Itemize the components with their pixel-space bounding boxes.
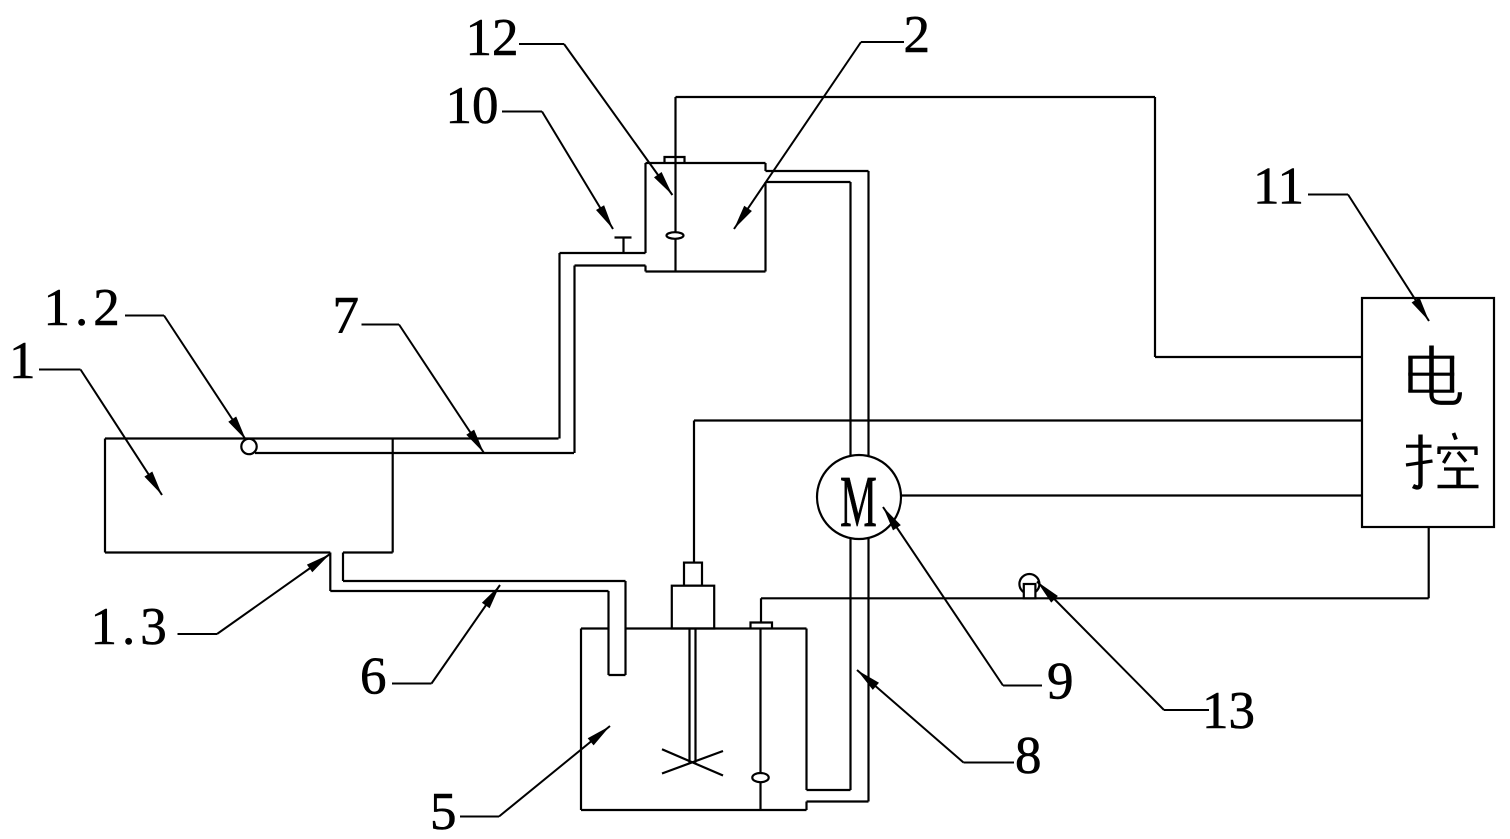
- label 7 arrowhead: [466, 430, 484, 453]
- svg-text:12: 12: [466, 9, 519, 67]
- sensor 13 circle head: [1019, 574, 1039, 594]
- mixing tank 5 top edge left of dip tube: [581, 627, 609, 629]
- pipe 8 outer top run: [766, 170, 869, 172]
- pipe 8 outer downcomer: [867, 171, 869, 802]
- pipe 8 inner top run: [766, 181, 851, 183]
- label 6 arrowhead: [482, 585, 500, 608]
- stirrer shaft right line: [694, 629, 696, 763]
- pipe 6 top line: [343, 580, 626, 582]
- pipe 8 outer bottom run: [807, 800, 869, 802]
- pump M circle: [817, 455, 901, 539]
- tank 5 inner weir wall: [759, 629, 761, 811]
- control box text: dian: [1408, 346, 1460, 403]
- mixing tank 5 right wall upper: [805, 629, 807, 791]
- outlet ellipse on weir wall: [752, 773, 768, 782]
- mixing tank 5 right wall lower: [805, 802, 807, 811]
- pipe 8 inner bottom run: [807, 789, 851, 791]
- control box 11 outline: [1362, 298, 1494, 527]
- svg-text:1.2: 1.2: [44, 279, 125, 337]
- pipe 6 dip tube bottom: [609, 674, 626, 676]
- label 1.3 leader line: [178, 554, 331, 634]
- sensor wire riser from tank 5 nozzle: [760, 598, 762, 622]
- label 9 leader line: [883, 507, 1042, 686]
- pipe 7 outer top run into condenser 2: [560, 252, 646, 254]
- label 1.3 arrowhead: [307, 554, 330, 572]
- label 13 leader line: [1037, 582, 1209, 711]
- svg-text:6: 6: [360, 648, 387, 706]
- condenser 2 bottom edge: [646, 270, 766, 272]
- label 10 arrowhead: [596, 205, 613, 229]
- svg-text:2: 2: [904, 6, 931, 64]
- condenser 2 top cap nozzle: [665, 157, 685, 163]
- label 6 leader line: [392, 585, 500, 684]
- tank 1 bottom edge right of outlet: [343, 551, 393, 553]
- label 13 arrowhead: [1037, 582, 1058, 603]
- label 8 arrowhead: [857, 670, 879, 690]
- label 8 leader line: [857, 670, 1014, 763]
- signal wire condenser 2 to control box: top run: [676, 96, 1156, 98]
- label 12 arrowhead: [654, 172, 672, 195]
- label 1 arrowhead: [144, 472, 162, 496]
- pipe 6 dip tube left line: [607, 591, 609, 675]
- label 1.2 leader line: [125, 316, 246, 441]
- float ellipse inside condenser 2: [667, 232, 684, 239]
- pipe 7 outer riser: [558, 253, 560, 439]
- stirrer motor 9 upper block: [684, 563, 702, 586]
- svg-text:M: M: [840, 461, 877, 542]
- svg-text:10: 10: [446, 77, 499, 135]
- tank 1 left wall: [104, 439, 106, 553]
- condenser 2 internal dip line: [674, 97, 676, 272]
- pipe 6 dip tube right line: [624, 581, 626, 675]
- pipe 7 inner riser: [573, 266, 575, 454]
- signal wire condenser 2 to control box: into box: [1155, 356, 1362, 358]
- label 1 leader line: [39, 370, 162, 496]
- tank 1 bottom edge left of outlet: [105, 551, 330, 553]
- tank 1 outlet 1.3 step right line: [342, 553, 344, 582]
- wire control box to stirrer motor: drop: [693, 421, 695, 564]
- tank 1 top edge continuing as pipe 7 top line: [105, 437, 559, 439]
- condenser 2 left wall upper: [644, 163, 646, 253]
- pipe 7 lower line horizontal run: [255, 452, 574, 454]
- condenser 2 left wall lower: [644, 266, 646, 272]
- label 12 leader line: [519, 44, 672, 195]
- sensor wire horizontal run: [761, 597, 1429, 599]
- control box text: kong: [1406, 433, 1479, 487]
- label 10 leader line: [502, 112, 613, 230]
- condenser 2 top edge: [646, 162, 766, 164]
- condenser 2 right wall upper: [764, 163, 766, 171]
- label 2 arrowhead: [734, 206, 752, 229]
- label 7 leader line: [362, 325, 485, 454]
- label 5 leader line: [460, 726, 610, 817]
- stirrer blade stroke 2: [662, 751, 723, 774]
- valve 10 tee stem: [622, 238, 624, 254]
- mixing tank 5 bottom edge: [581, 809, 807, 811]
- svg-text:1: 1: [9, 332, 36, 390]
- mixing tank 5 left wall: [580, 629, 582, 811]
- stirrer shaft left line: [688, 629, 690, 763]
- svg-text:9: 9: [1047, 653, 1074, 711]
- tank 1 outlet 1.3 step left line: [329, 553, 331, 592]
- label 11 leader line: [1308, 195, 1429, 322]
- svg-text:1.3: 1.3: [91, 598, 172, 656]
- stirrer motor 9 body: [672, 586, 714, 629]
- svg-text:5: 5: [430, 783, 457, 839]
- svg-text:13: 13: [1202, 682, 1255, 740]
- wire pump M to control box: [901, 494, 1362, 496]
- label 11 arrowhead: [1412, 297, 1429, 321]
- label 1.2 arrowhead: [228, 417, 246, 441]
- stirrer blade stroke 1: [662, 749, 723, 775]
- signal wire condenser 2 to control box: drop: [1154, 97, 1156, 357]
- label 9 arrowhead: [883, 507, 901, 530]
- inlet port 1.2 circle on tank 1: [241, 439, 256, 454]
- sensor wire riser into control box bottom: [1428, 527, 1430, 598]
- label 5 arrowhead: [588, 726, 610, 745]
- condenser 2 right wall lower: [764, 182, 766, 272]
- pipe 7 inner top run into condenser 2: [575, 264, 646, 266]
- valve 10 tee bar: [615, 236, 632, 238]
- label 2 leader line: [734, 42, 904, 229]
- pipe 8 inner downcomer: [849, 182, 851, 790]
- tank 1 right wall: [392, 439, 394, 553]
- sensor 13 square body: [1024, 584, 1036, 598]
- mixing tank 5 top edge right of dip tube: [626, 627, 807, 629]
- svg-text:7: 7: [333, 287, 360, 345]
- level sensor nozzle on tank 5: [751, 623, 773, 629]
- pipe 6 bottom line: [330, 590, 608, 592]
- wire control box to stirrer motor: horizontal: [694, 419, 1362, 421]
- svg-text:11: 11: [1253, 158, 1304, 216]
- svg-text:8: 8: [1015, 727, 1042, 785]
